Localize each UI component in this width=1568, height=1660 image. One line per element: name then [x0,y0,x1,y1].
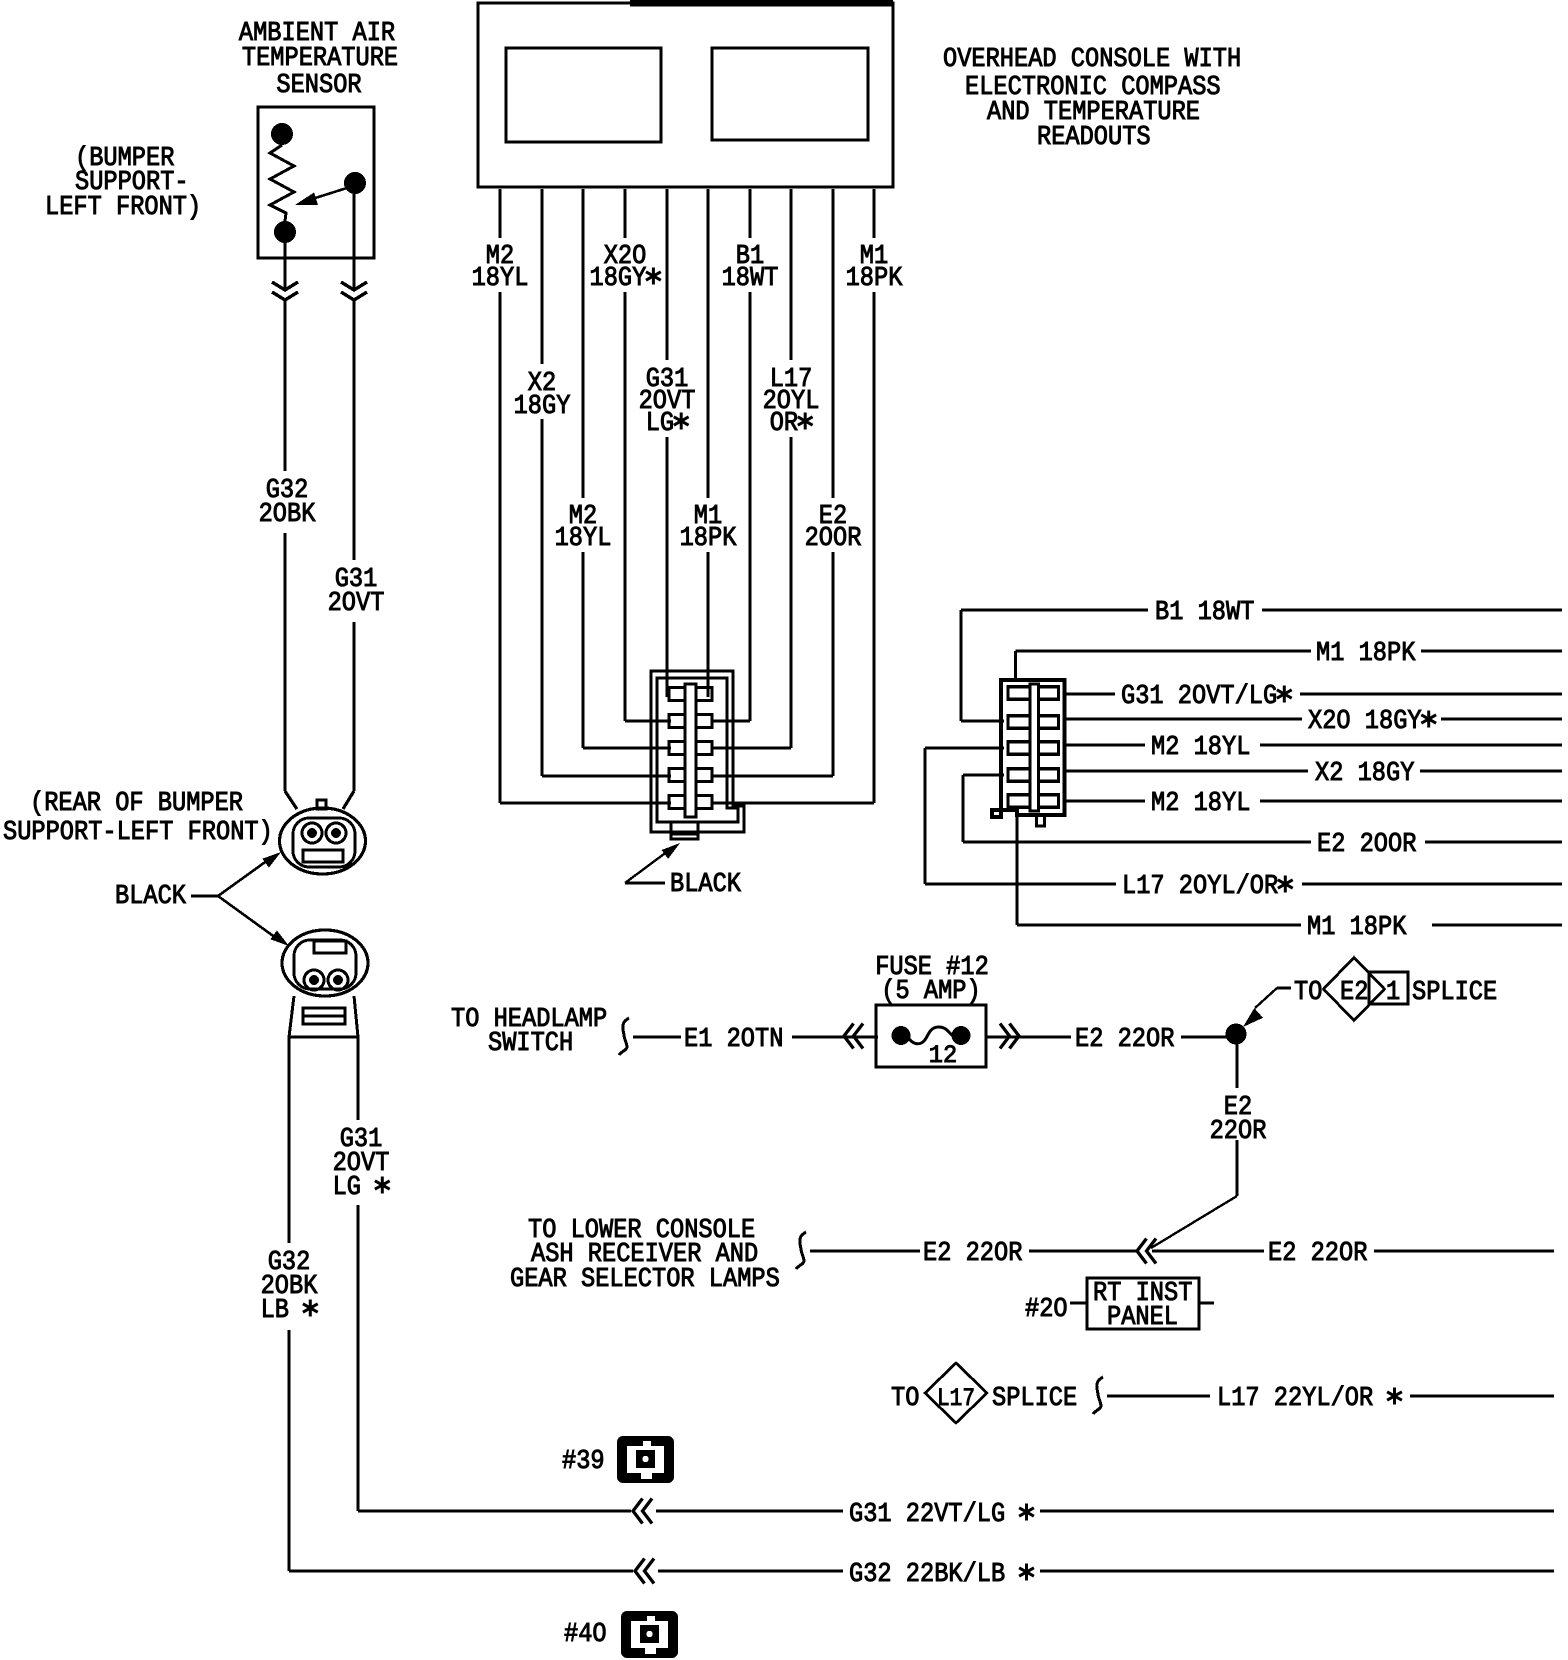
svg-text:18WT: 18WT [722,264,779,294]
wire E1 20TN [633,1035,681,1038]
svg-text:18PK: 18PK [680,524,737,554]
leader dash right of box [1199,1302,1214,1305]
svg-text:#4O: #4O [564,1620,607,1650]
wire G32 LB down to corner [287,1330,290,1571]
svg-text:L17 22YL/OR: L17 22YL/OR [1217,1384,1373,1414]
wire E2 200R row [963,840,1311,843]
svg-text:SWITCH: SWITCH [488,1029,573,1059]
ground symbol #39 [617,1436,674,1483]
svg-text:READOUTS: READOUTS [1037,123,1151,153]
wire G31 22VT/LG horizontal [358,1509,631,1512]
svg-text:(REAR OF BUMPER: (REAR OF BUMPER [30,789,243,819]
console harness connector center bar [685,684,696,817]
wire G31 20VT LG* (pin 5) [665,189,668,360]
svg-text:E2: E2 [1340,978,1368,1008]
oval connector 1 key slot [303,850,343,862]
oval connector 1 top tab [317,800,326,809]
fuse #12 box [876,1005,986,1067]
svg-text:2OBK: 2OBK [259,500,316,530]
fuse terminal left [892,1026,911,1045]
wire G31 LG below connector [356,1037,359,1120]
wire G31 continues [352,300,355,560]
svg-text:E2 22OR: E2 22OR [923,1239,1022,1269]
svg-text:(5 AMP): (5 AMP) [881,977,980,1007]
wire E2 200R (pin 9) [831,189,834,498]
wire G31 from sensor wiper pin [352,194,355,288]
wire G32 from sensor bottom pin [283,243,286,288]
wire M1 18PK row [1016,649,1312,652]
inline connector chevron on G32 wire [272,282,298,290]
wiper arrow [309,187,350,200]
oval connector 1 pin A [302,823,322,843]
sensor pin dot right (wiper) [344,172,366,194]
instrument panel connector center bar [1030,684,1039,811]
svg-text:G32 22BK/LB: G32 22BK/LB [849,1560,1005,1590]
wire E2 diagonal to inline connector [1151,1196,1237,1248]
inline connector chevron before fuse [844,1024,854,1049]
fuse element [908,1027,953,1044]
wire B1 18WT (pin 7) [748,189,751,238]
oval connector 2 outer [282,930,368,996]
wire L17 row to edge [1410,1394,1554,1397]
wire pin7 into connector [711,719,750,722]
oval connector (rear of bumper support) outer [280,808,366,874]
oval connector 1 inner body [293,818,355,867]
svg-text:OR: OR [770,409,798,439]
svg-text:X2O 18GY: X2O 18GY [1308,707,1422,737]
svg-text:LG: LG [646,409,674,439]
junction node E2 [1226,1024,1247,1045]
svg-text:SPLICE: SPLICE [992,1384,1077,1414]
wire X2 18GY (pin 2) [540,189,543,364]
wire M2 18YL row b [1065,799,1146,802]
ground symbol #40 [621,1611,678,1658]
svg-text:B1 18WT: B1 18WT [1155,598,1254,628]
sensor pin dot top [271,123,293,145]
ambient air temperature sensor box [258,107,374,258]
splice circuit box 1 [1369,972,1408,1004]
svg-text:LEFT FRONT): LEFT FRONT) [45,193,201,223]
oval connector 2 shell stripe [303,1008,345,1024]
wire M1 18PK (pin 6) [706,189,709,498]
svg-text:BLACK: BLACK [670,870,742,900]
svg-text:LG: LG [333,1173,361,1203]
svg-text:L17 2OYL/OR: L17 2OYL/OR [1122,872,1278,902]
svg-text:TEMPERATURE: TEMPERATURE [242,44,398,74]
wire out of fuse box [986,1035,1071,1038]
wire M1 to connector top [1014,651,1017,682]
wire M1 18PK bottom row [1017,923,1301,926]
wire G31 to oval connector [352,622,355,791]
instrument panel connector outer shell [992,680,1065,817]
svg-text:E2 22OR: E2 22OR [1268,1239,1367,1269]
wire X20 18GY* (pin 4) [623,189,626,238]
wire B1 to connector [959,610,962,721]
wire G31 20VT/LG* row [1065,692,1116,695]
wire E2 lamps right [1152,1249,1264,1252]
svg-text:M2 18YL: M2 18YL [1151,789,1250,819]
harness brace (lower console) [796,1232,806,1269]
wire pin9 into connector [711,774,833,777]
instrument panel connector pin teeth [1008,687,1030,700]
wire pin10 into connector [711,801,874,804]
svg-text:E1 2OTN: E1 2OTN [684,1025,783,1055]
splice symbol E2 diamond [1324,958,1385,1021]
wire B1 18WT row [961,608,1148,611]
wire pin1 into connector [500,801,671,804]
oval connector 1 pin B [326,823,346,843]
oval connector 2 key slot [314,941,346,953]
svg-text:SUPPORT-LEFT FRONT): SUPPORT-LEFT FRONT) [3,818,273,848]
wire M2 18YL (pin 3) [581,189,584,498]
svg-text:12: 12 [929,1041,957,1070]
svg-text:L17: L17 [937,1384,975,1413]
wire G32 22BK/LB horizontal [289,1569,633,1572]
svg-text:2OOR: 2OOR [805,524,862,554]
wire pin8 into connector [711,746,791,749]
splice symbol L17 diamond [925,1363,987,1423]
console display window left [506,48,661,142]
wire G31 LG down to corner [356,1205,359,1511]
wire E1 to fuse [792,1035,878,1038]
svg-text:G31 22VT/LG: G31 22VT/LG [849,1500,1005,1530]
wire L17 22YL/OR [1107,1394,1210,1397]
console harness connector pin teeth [669,688,685,701]
oval connector 2 body shell [289,996,358,1037]
fuse terminal right [952,1026,971,1045]
svg-text:SPLICE: SPLICE [1412,978,1497,1008]
svg-text:OVERHEAD CONSOLE WITH: OVERHEAD CONSOLE WITH [943,45,1241,75]
wire G32 continues [283,300,286,471]
console harness connector inner shell [657,678,738,822]
wire E2 220R below junction [1235,1044,1238,1088]
svg-text:LB: LB [261,1296,289,1326]
instrument panel connector bottom tab [1037,815,1045,826]
sensor pin dot bottom [274,221,296,243]
wire L17 20YL/OR* row [925,882,1116,885]
console display window right [712,48,868,140]
svg-text:18YL: 18YL [472,264,529,294]
wire M1 18PK (pin 10) [872,189,875,238]
harness brace (L17 splice) [1093,1377,1103,1414]
wire M2 18YL (pin 1) [498,189,501,238]
wire E2 lamps to edge [1374,1249,1554,1252]
wire G32 row right [1040,1569,1554,1572]
oval connector 2 inner body [294,940,356,989]
wire E2 row to connector [961,775,964,842]
svg-text:PANEL: PANEL [1107,1303,1178,1333]
svg-text:#2O: #2O [1025,1295,1068,1325]
wire X20 18GY* row [1065,717,1303,720]
wire to E2 220R (lamps) [810,1249,920,1252]
svg-text:18GY: 18GY [590,264,647,294]
svg-text:18GY: 18GY [514,392,571,422]
connector location box RT INST PANEL [1087,1278,1199,1329]
wire L17 row to connector [923,748,926,884]
svg-text:X2 18GY: X2 18GY [1315,759,1414,789]
inline connector chevron on G31 row [633,1499,643,1524]
oval connector 2 pin B [328,970,348,990]
svg-text:1: 1 [1386,978,1400,1008]
wire G31 row middle [656,1509,843,1512]
wire pin2 into connector [542,774,671,777]
svg-text:E2 2OOR: E2 2OOR [1317,830,1416,860]
wire pin3 into connector [583,746,671,749]
wire E2 vertical lower [1235,1140,1238,1196]
wire M2 18YL row a [1065,743,1146,746]
arrow to upper oval connector [218,860,268,896]
leader dash to RT INST PANEL box [1070,1302,1087,1305]
svg-text:GEAR SELECTOR LAMPS: GEAR SELECTOR LAMPS [510,1265,780,1295]
overhead console module box [478,3,893,187]
console harness connector outer shell [651,671,744,832]
svg-text:18PK: 18PK [846,264,903,294]
leader line from BLACK [191,895,218,898]
wire G32 LB below connector [287,1037,290,1243]
console harness connector bottom tab [671,822,698,839]
wire G32 to oval connector [283,533,286,791]
wire X2 18GY row [1065,769,1309,772]
inline connector chevron after fuse [1010,1024,1020,1049]
wire E2 to junction [1181,1035,1228,1038]
wire pin4 into connector [625,719,671,722]
wire G32 row middle [658,1569,843,1572]
svg-text:M1 18PK: M1 18PK [1316,639,1416,669]
svg-text:2OVT: 2OVT [328,589,385,619]
svg-text:TO: TO [1294,978,1322,1008]
svg-text:M2 18YL: M2 18YL [1151,733,1250,763]
wire G31 row right [1040,1509,1554,1512]
svg-text:TO: TO [891,1384,919,1414]
svg-text:E2 22OR: E2 22OR [1075,1025,1174,1055]
inline connector chevron on G32 row [635,1559,645,1584]
oval connector 2 pin A [304,970,324,990]
arrow to BLACK connector tab [625,851,668,883]
arrow from E2 splice to junction [1255,988,1277,1008]
inline connector chevron on G31 wire [341,282,367,290]
inline connector chevron on lamps row [1137,1239,1147,1264]
wire E2 lamps middle [1029,1249,1136,1252]
svg-text:BLACK: BLACK [115,882,187,912]
svg-text:#39: #39 [562,1447,605,1477]
wire L17 20YL OR* (pin 8) [789,189,792,360]
resistor element (thermistor zigzag) [270,145,294,221]
svg-text:M1 18PK: M1 18PK [1307,913,1407,943]
harness brace (headlamp switch) [619,1018,629,1055]
leader dash for BLACK (center) [625,882,665,885]
svg-text:G31 2OVT/LG: G31 2OVT/LG [1121,682,1277,712]
overhead console box top thick edge [630,0,893,7]
svg-text:18YL: 18YL [555,524,612,554]
arrow to lower oval connector [218,896,276,938]
wire M1 bottom to connector [1015,817,1018,925]
svg-text:SENSOR: SENSOR [276,71,361,101]
